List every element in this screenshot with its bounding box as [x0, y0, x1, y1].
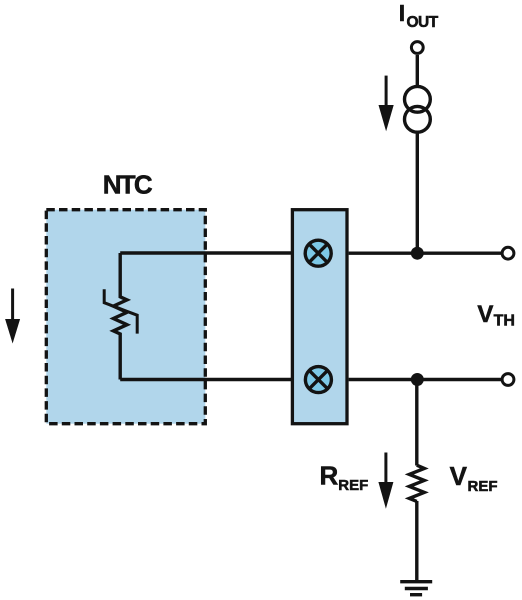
- resistor R_REF zigzag: [409, 465, 424, 501]
- label R_REF: [320, 460, 369, 494]
- current arrow for R_REF: [378, 453, 393, 509]
- svg-text:TH: TH: [494, 313, 515, 330]
- wire connector block to right terminal (bottom): [349, 378, 501, 381]
- wire connector block to right terminal (top): [349, 251, 501, 254]
- node junction bottom: [411, 373, 424, 386]
- label I_OUT: [399, 0, 439, 31]
- wire terminal to current source: [416, 55, 419, 87]
- wire thermistor to connector block (top): [120, 251, 292, 254]
- svg-text:NTC: NTC: [103, 170, 153, 200]
- svg-text:REF: REF: [468, 478, 498, 495]
- terminal X top (circled X): [305, 240, 331, 266]
- connector block: [292, 210, 347, 424]
- terminal (open circle) top: [411, 42, 423, 54]
- svg-text:V: V: [477, 301, 493, 328]
- wire thermistor to connector block (bottom): [120, 378, 292, 381]
- label V_REF: [450, 461, 498, 495]
- terminal (open circle) right bottom: [502, 374, 514, 386]
- thermistor strike-through line: [104, 289, 137, 333]
- terminal X bottom (circled X): [305, 367, 331, 393]
- node junction top: [411, 247, 424, 260]
- svg-text:V: V: [450, 461, 468, 491]
- NTC dashed box: [46, 210, 205, 424]
- ground symbol: [400, 582, 432, 595]
- arrow current direction left of NTC box: [5, 289, 20, 344]
- thermistor RT1 (NTC) zigzag: [113, 253, 127, 380]
- current arrow for I_OUT: [379, 76, 394, 132]
- wire resistor to ground: [415, 501, 418, 582]
- current source U1 (overlapping circles): [405, 86, 431, 132]
- svg-text:REF: REF: [338, 477, 368, 494]
- label V_TH: [477, 301, 515, 330]
- svg-text:R: R: [320, 460, 339, 490]
- terminal (open circle) right top: [502, 247, 514, 259]
- svg-text:OUT: OUT: [407, 14, 439, 31]
- wire bottom node to resistor R_REF: [415, 380, 418, 466]
- wire current source to top node: [416, 132, 419, 254]
- svg-text:I: I: [399, 0, 405, 26]
